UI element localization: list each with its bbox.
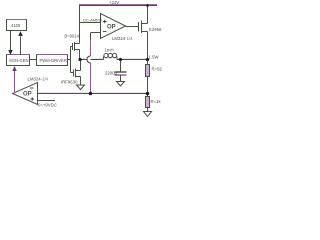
svg-text:1mH: 1mH — [105, 48, 114, 53]
svg-text:0~+9VDC: 0~+9VDC — [38, 103, 57, 108]
svg-text:LM324-1/4: LM324-1/4 — [112, 36, 133, 41]
svg-text:IRF9630: IRF9630 — [61, 80, 78, 85]
svg-text:OP: OP — [23, 92, 32, 98]
svg-text:2200µ: 2200µ — [105, 71, 118, 76]
svg-text:β=9014: β=9014 — [65, 34, 80, 39]
svg-text:LM324-2/4: LM324-2/4 — [28, 77, 49, 82]
svg-text:K2956: K2956 — [149, 27, 162, 32]
svg-text:DC-AMPLI: DC-AMPLI — [83, 17, 102, 22]
svg-text:R=1k: R=1k — [151, 99, 162, 104]
svg-text:OP: OP — [107, 25, 116, 31]
svg-text:SGN-GEN: SGN-GEN — [9, 58, 29, 63]
svg-text:1.5W: 1.5W — [149, 55, 160, 60]
svg-text:PWM-DRIVER: PWM-DRIVER — [40, 58, 67, 63]
svg-text:4106: 4106 — [11, 23, 21, 28]
svg-text:R=5Ω: R=5Ω — [152, 67, 163, 72]
svg-text:+24V: +24V — [109, 0, 119, 5]
